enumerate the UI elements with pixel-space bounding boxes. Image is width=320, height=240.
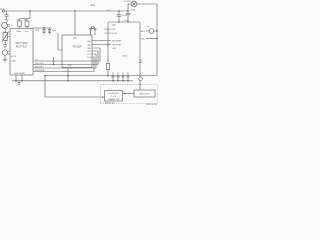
SPI bus wire SDA [33, 57, 94, 72]
svg-text:VF: VF [147, 27, 149, 29]
junction [21, 80, 23, 82]
svg-text:RC2: RC2 [87, 54, 91, 56]
capacitor C1 [5, 11, 9, 19]
svg-text:CHARACTER: CHARACTER [108, 98, 120, 101]
net label supply [90, 4, 96, 7]
junction [44, 75, 46, 77]
pin label [112, 45, 121, 47]
svg-text:LDAC: LDAC [11, 60, 17, 63]
wire pullup to IC [20, 27, 28, 29]
capacitor C5 [127, 10, 129, 12]
capacitor C2 [43, 28, 46, 34]
SPI bus wire SDI [33, 54, 96, 68]
svg-text:D+: D+ [11, 25, 14, 27]
pin label [112, 48, 116, 50]
wire MCU PWM [92, 40, 111, 42]
microcontroller U2 [62, 35, 92, 68]
wire Q3 to U1 [8, 52, 10, 55]
terminal ring [139, 77, 143, 81]
junction [139, 84, 140, 85]
pin label OSC2 [104, 33, 118, 35]
switch S2 [117, 75, 119, 77]
wire arrow between boxes [125, 93, 134, 95]
svg-text:FAN: FAN [139, 61, 143, 64]
svg-text:AN0/VREF: AN0/VREF [112, 40, 122, 43]
junction [43, 27, 44, 28]
pin label OSC1 [104, 29, 116, 31]
svg-text:10kΩ: 10kΩ [122, 56, 127, 58]
wire MCU to R1 [92, 44, 111, 46]
SPI bus wire SCLK [33, 51, 98, 65]
junction VDD MCU [74, 10, 76, 12]
wire fan to right [137, 4, 157, 76]
junction [67, 80, 69, 82]
wire mid horizontal [108, 21, 140, 23]
wire jumper [53, 57, 55, 65]
junction [15, 80, 17, 82]
wire rail to MCU [74, 11, 76, 35]
SPI bus wire CS [33, 48, 100, 61]
svg-text:S1: S1 [112, 73, 114, 75]
pin OSC [140, 38, 145, 40]
svg-text:BACKLIGHT: BACKLIGHT [139, 93, 150, 96]
resistor R1 [106, 64, 109, 70]
fan M1 [128, 3, 131, 5]
transistor Q1 remote sensor [2, 23, 8, 29]
labels S1-S4 [112, 73, 129, 75]
svg-text:10μF: 10μF [52, 30, 57, 32]
svg-text:04741-0-036: 04741-0-036 [146, 104, 157, 106]
ground rail [12, 80, 133, 82]
svg-text:S3: S3 [122, 73, 124, 75]
capacitor C4 [118, 10, 120, 12]
svg-text:12V: 12V [139, 59, 143, 61]
svg-text:VDD: VDD [73, 38, 78, 40]
wire to pullups [20, 11, 31, 21]
wire VDD decoupling [33, 27, 52, 29]
wire power rail [5, 10, 128, 12]
ground [17, 81, 21, 84]
svg-text:S4: S4 [127, 73, 129, 75]
svg-text:RC1: RC1 [87, 51, 91, 53]
ground [3, 45, 7, 48]
thermistor RT1 [3, 33, 8, 41]
wire Q3 emitter [4, 55, 6, 59]
junction [107, 44, 109, 46]
crystal Y1 [89, 28, 96, 35]
switch S1 [112, 75, 114, 77]
svg-text:LIMIT: LIMIT [140, 31, 146, 33]
backlight box [134, 90, 155, 97]
svg-text:2 × 16: 2 × 16 [111, 95, 116, 98]
svg-text:GP1/PWM: GP1/PWM [112, 45, 121, 47]
svg-text:OSC: OSC [140, 38, 145, 40]
figure number [146, 104, 157, 106]
svg-text:OSC2/CLKOUT: OSC2/CLKOUT [104, 33, 118, 35]
junction [29, 10, 31, 12]
pin label VDD [35, 29, 40, 31]
wire RT1 [5, 28, 10, 44]
junction [107, 75, 109, 77]
arrowhead [102, 96, 104, 98]
svg-text:GND: GND [14, 73, 19, 75]
junction [53, 64, 54, 65]
resistor RP1 [18, 21, 22, 27]
transistor Q3 remote sensor 2 [2, 50, 7, 55]
svg-text:0.1μF: 0.1μF [131, 10, 137, 12]
node VDD terminal [2, 10, 4, 12]
value label 10k [122, 56, 127, 58]
svg-text:RC3: RC3 [87, 57, 91, 59]
svg-text:PIC16F: PIC16F [73, 45, 82, 49]
net label [107, 10, 111, 12]
svg-text:VDD: VDD [0, 7, 5, 11]
junction [127, 21, 128, 22]
ground [3, 59, 7, 62]
svg-text:OSC1/CLKIN: OSC1/CLKIN [104, 29, 116, 31]
switch S3 [122, 75, 124, 77]
LCD module [105, 91, 123, 102]
svg-text:SCL: SCL [25, 31, 29, 33]
wire signal A [45, 75, 157, 77]
svg-text:RC0: RC0 [87, 48, 91, 50]
wire driver vertical [139, 22, 141, 90]
net label VDD [0, 7, 5, 11]
pin LIMIT [140, 31, 146, 33]
value label 10uF [112, 24, 117, 26]
svg-text:+12V: +12V [90, 4, 96, 7]
svg-text:LCD MODULE: LCD MODULE [108, 93, 121, 95]
wire R1 branch [107, 22, 109, 64]
svg-text:DC FAN: DC FAN [123, 0, 130, 3]
svg-text:10μF: 10μF [112, 24, 117, 26]
svg-text:ADT7317: ADT7317 [16, 44, 28, 48]
junction [67, 75, 69, 77]
svg-text:S2: S2 [117, 73, 119, 75]
junction [118, 21, 119, 22]
ground [5, 20, 9, 23]
svg-text:GP3: GP3 [112, 48, 116, 50]
svg-text:(BACKLIT): (BACKLIT) [105, 101, 115, 104]
svg-text:RB0: RB0 [88, 41, 92, 43]
switch S4 [127, 75, 129, 77]
wire to LCD [45, 76, 103, 98]
diode D1 [149, 29, 154, 34]
wire U1 ground pins [16, 75, 22, 81]
value label 0.1uF [124, 20, 130, 22]
capacitor C3 polarized [46, 30, 48, 32]
svg-text:AGND: AGND [19, 72, 25, 75]
wire MCLR [58, 33, 62, 50]
enclosure dashed [101, 85, 158, 104]
svg-text:0.1μF: 0.1μF [124, 20, 130, 22]
svg-text:MCLK: MCLK [11, 56, 17, 58]
wire Q1 to U1 [7, 25, 10, 27]
pin label [112, 40, 122, 43]
svg-text:RB1: RB1 [88, 45, 92, 47]
temperature sensor U1 ADT7316 [10, 29, 33, 76]
wire MCU VSS [67, 68, 69, 81]
resistor RP2 [25, 21, 29, 27]
svg-text:VDD: VDD [35, 29, 40, 31]
label 12V FAN [139, 59, 143, 64]
